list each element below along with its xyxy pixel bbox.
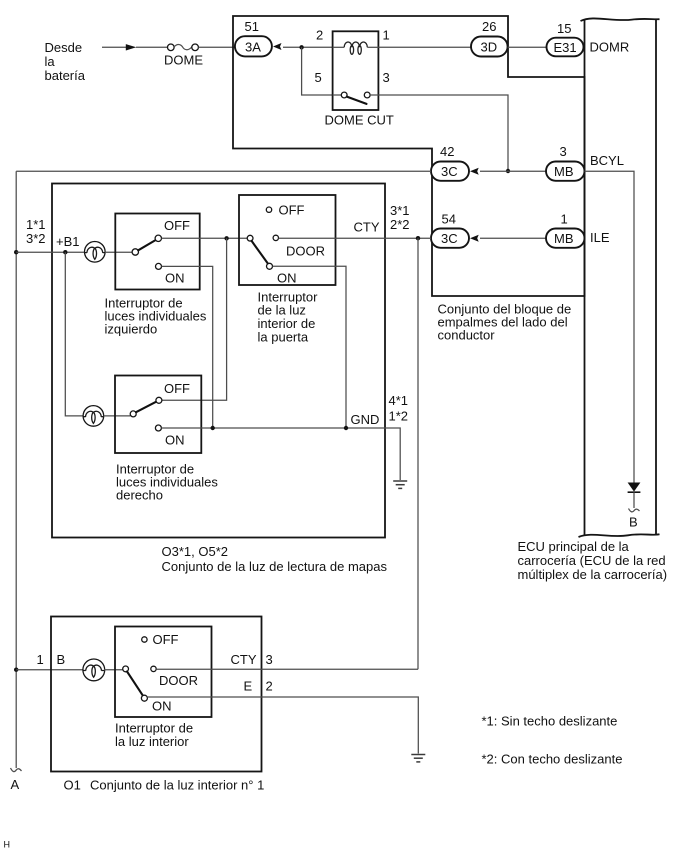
node rail/B <box>14 668 18 672</box>
wire left OFF to door pivot <box>162 237 248 239</box>
bulb map light left <box>85 242 106 263</box>
relay coil <box>333 42 379 54</box>
svg-text:ON: ON <box>277 271 297 286</box>
svg-text:2: 2 <box>316 28 323 43</box>
svg-text:E: E <box>244 679 253 694</box>
node pin3/BCYL junction <box>506 169 510 173</box>
junction block outline (driver side J/B) <box>233 16 585 296</box>
svg-text:E31: E31 <box>554 40 577 55</box>
bulb interior light <box>83 659 105 681</box>
relay switch <box>333 92 379 104</box>
switch box interruptor derecho <box>115 376 201 454</box>
label interruptor puerta <box>258 290 319 345</box>
ground symbol map light <box>393 481 407 488</box>
svg-text:O1: O1 <box>64 778 81 793</box>
node GND left <box>211 426 215 430</box>
svg-text:1: 1 <box>561 212 568 227</box>
fuse DOME <box>164 44 235 68</box>
wire bulb to right switch <box>104 415 131 417</box>
wire +B1 branch down to right bulb <box>65 252 84 416</box>
arrow into 3C 42 <box>470 168 479 175</box>
svg-text:4*1: 4*1 <box>389 393 409 408</box>
svg-text:O3*1, O5*2: O3*1, O5*2 <box>162 544 229 559</box>
wire interior ON/E to ground <box>147 697 418 754</box>
wire bulb to interior switch <box>104 669 123 671</box>
label O1 Conjunto <box>64 778 265 793</box>
wire battery feed with arrow <box>102 44 168 50</box>
svg-text:carrocería (ECU de la red: carrocería (ECU de la red <box>518 553 666 568</box>
switch box interruptor izquierdo <box>115 214 199 290</box>
wire BCYL row left to rail <box>16 170 431 172</box>
label 3*1 2*2 <box>390 203 410 232</box>
svg-text:la: la <box>45 54 56 69</box>
label ECU principal <box>518 539 668 582</box>
switch door: pivot, blade, contacts <box>247 207 278 269</box>
svg-text:izquierdo: izquierdo <box>105 322 158 337</box>
node rail/+B1 <box>14 250 18 254</box>
map light assembly box <box>52 184 385 538</box>
arrow into 3C 54 <box>470 235 479 242</box>
connector 3C pin 42 <box>431 144 469 181</box>
svg-text:1: 1 <box>37 652 44 667</box>
svg-text:2*2: 2*2 <box>390 217 410 232</box>
svg-text:la luz interior: la luz interior <box>115 734 189 749</box>
node +B1 branch <box>63 250 67 254</box>
wire 3D to E31 <box>508 46 547 48</box>
svg-text:3: 3 <box>560 144 567 159</box>
svg-text:3*2: 3*2 <box>26 231 46 246</box>
label interruptor derecho <box>116 462 218 503</box>
svg-text:3C: 3C <box>441 164 458 179</box>
svg-text:MB: MB <box>554 164 574 179</box>
wire continuation squiggle B <box>629 509 640 512</box>
node OFF junction <box>224 236 228 240</box>
wire relay pin1 to 3D <box>378 46 471 48</box>
svg-text:*1: Sin techo deslizante: *1: Sin techo deslizante <box>482 714 618 729</box>
svg-text:la puerta: la puerta <box>258 330 309 345</box>
svg-text:42: 42 <box>440 144 454 159</box>
pin label 1*1 3*2 <box>26 217 46 246</box>
label interruptor luz interior <box>115 721 193 750</box>
wire left ON down to GND row <box>162 266 213 428</box>
svg-text:OFF: OFF <box>279 203 305 218</box>
connector 3D pin 26 <box>471 19 508 57</box>
svg-text:BCYL: BCYL <box>590 153 624 168</box>
svg-text:ON: ON <box>165 271 185 286</box>
switch box interruptor puerta <box>239 195 336 285</box>
svg-text:CTY: CTY <box>354 220 380 235</box>
svg-text:2: 2 <box>266 679 273 694</box>
connector 3C pin 54 <box>431 212 469 248</box>
arrow into 3A <box>273 43 282 50</box>
svg-text:54: 54 <box>442 212 456 227</box>
label Conjunto del bloque de empalmes <box>438 302 572 343</box>
node CTY junction <box>416 236 420 240</box>
svg-text:ILE: ILE <box>590 230 610 245</box>
svg-text:batería: batería <box>45 68 86 83</box>
svg-text:3A: 3A <box>245 40 261 55</box>
wire interior light B row <box>16 669 83 671</box>
wire door DOOR contact to 3C54 <box>279 237 432 239</box>
relay DOME CUT <box>315 28 394 128</box>
wire left rail <box>15 171 17 768</box>
svg-text:B: B <box>629 515 638 530</box>
wire OFF junction down to right switch OFF <box>162 238 227 400</box>
svg-text:conductor: conductor <box>438 328 496 343</box>
connector MB pin 3 (BCYL) <box>546 144 585 181</box>
node relay feed junction <box>299 45 303 49</box>
wire BCYL inside ECU <box>585 171 635 482</box>
svg-text:múltiplex de la carrocería): múltiplex de la carrocería) <box>518 567 668 582</box>
svg-text:3D: 3D <box>481 40 498 55</box>
wire GND row <box>161 428 400 480</box>
svg-text:DOME: DOME <box>164 53 203 68</box>
svg-text:CTY: CTY <box>231 652 257 667</box>
svg-text:ON: ON <box>152 699 172 714</box>
wire interior DOOR/CTY to vertical <box>156 668 418 670</box>
connector 3A pin 51 <box>235 19 272 56</box>
connector MB pin 1 (ILE) <box>546 212 585 248</box>
connector E31 pin 15 <box>547 21 584 56</box>
svg-text:MB: MB <box>554 231 574 246</box>
svg-text:OFF: OFF <box>164 218 190 233</box>
wire relay pin3 down to BCYL row <box>378 95 508 171</box>
switch right individual: pivot, blade, contacts <box>130 397 162 431</box>
svg-text:3*1: 3*1 <box>390 203 410 218</box>
svg-text:DOOR: DOOR <box>286 244 325 259</box>
svg-text:Desde: Desde <box>45 40 83 55</box>
svg-text:+B1: +B1 <box>56 234 80 249</box>
svg-text:3C: 3C <box>441 231 458 246</box>
switch left individual: pivot, blade, contacts <box>132 235 161 269</box>
node GND right <box>344 426 348 430</box>
pin labels 1 B <box>37 652 66 667</box>
wire continuation squiggle A <box>11 768 22 772</box>
svg-text:derecho: derecho <box>116 488 163 503</box>
svg-text:B: B <box>57 652 66 667</box>
svg-text:ON: ON <box>165 433 185 448</box>
ECU body left edge <box>584 20 586 536</box>
wire 3C54 to MB1 <box>480 237 546 239</box>
svg-text:51: 51 <box>245 19 259 34</box>
bulb map light right <box>83 406 104 427</box>
svg-text:1*1: 1*1 <box>26 217 46 232</box>
wire 3C42 to MB3 <box>480 170 546 172</box>
svg-text:Conjunto de la luz de lectura: Conjunto de la luz de lectura de mapas <box>162 559 388 574</box>
svg-text:GND: GND <box>351 412 380 427</box>
wire door ON down to GND row <box>273 266 347 428</box>
svg-text:26: 26 <box>482 19 496 34</box>
label interruptor izquierdo <box>105 296 207 337</box>
label O3*1 O5*2 <box>162 544 388 574</box>
ground symbol interior light <box>411 755 425 762</box>
svg-text:5: 5 <box>315 70 322 85</box>
svg-text:1*2: 1*2 <box>389 409 409 424</box>
svg-text:3: 3 <box>383 70 390 85</box>
svg-text:DOME CUT: DOME CUT <box>325 113 394 128</box>
wire ILE vertical to interior light CTY <box>417 238 419 669</box>
wire +B1 row <box>16 251 85 253</box>
svg-text:DOOR: DOOR <box>159 673 198 688</box>
interior light assembly box <box>51 617 262 772</box>
ECU top wavy edge <box>581 18 660 21</box>
svg-text:1: 1 <box>383 28 390 43</box>
ECU body right edge <box>655 20 657 536</box>
label: Desde la bateria <box>45 40 86 83</box>
svg-text:DOMR: DOMR <box>590 40 630 55</box>
svg-text:ECU principal de la: ECU principal de la <box>518 539 630 554</box>
svg-text:H: H <box>4 840 11 850</box>
svg-text:15: 15 <box>557 21 571 36</box>
ECU bottom wavy edge <box>579 534 660 537</box>
wire branch to relay pin5 <box>302 47 333 95</box>
switch interior: pivot, blade, contacts <box>123 637 157 701</box>
switch box interruptor luz interior <box>115 627 212 718</box>
label 4*1 1*2 <box>389 393 409 424</box>
label CTY 3 <box>231 652 273 667</box>
svg-text:*2: Con techo deslizante: *2: Con techo deslizante <box>482 752 623 767</box>
svg-text:Conjunto de la luz interior n°: Conjunto de la luz interior n° 1 <box>90 778 264 793</box>
svg-text:OFF: OFF <box>164 381 190 396</box>
svg-text:OFF: OFF <box>153 632 179 647</box>
wire bulb to left switch <box>105 251 132 253</box>
svg-text:A: A <box>11 777 20 792</box>
svg-text:3: 3 <box>266 652 273 667</box>
diode inside ECU <box>628 483 641 509</box>
label E 2 <box>244 679 273 694</box>
wire 3A to relay pin2 <box>283 46 333 48</box>
